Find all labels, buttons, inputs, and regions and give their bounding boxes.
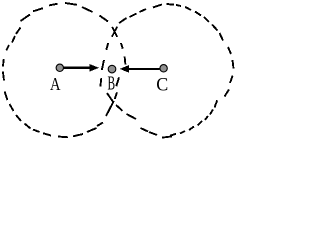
svg-text:B: B	[108, 74, 116, 95]
circle (right dashed circle, center near C)	[100, 4, 233, 138]
node B (gray dot)	[108, 65, 116, 73]
wire (arrow C to B)	[120, 65, 160, 72]
wire (arrow A to B)	[64, 64, 100, 72]
node C (gray dot)	[160, 65, 167, 72]
svg-text:C: C	[156, 75, 168, 96]
svg-text:A: A	[50, 74, 61, 94]
node A (gray dot)	[56, 64, 63, 71]
circle (left dashed circle, center near A)	[3, 3, 126, 137]
node X (intersection mark 'x')	[112, 27, 117, 37]
